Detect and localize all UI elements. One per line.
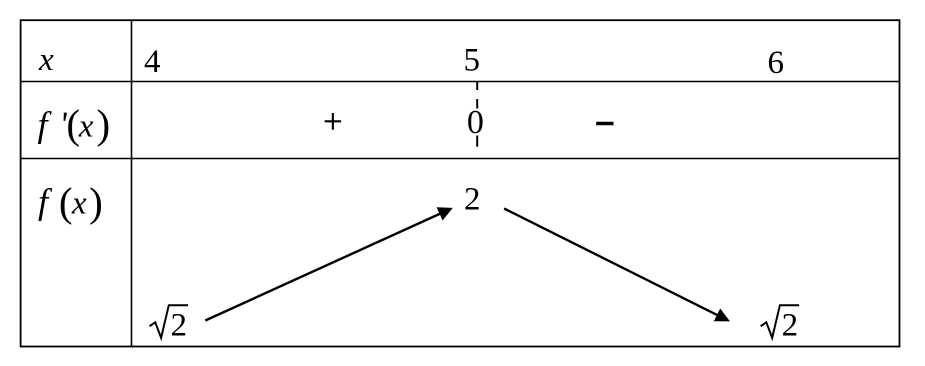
row divider 2	[21, 158, 900, 160]
svg-text:): )	[97, 101, 111, 147]
svg-text:x: x	[38, 42, 54, 78]
svg-text:2: 2	[171, 308, 188, 344]
svg-text:x: x	[78, 109, 94, 145]
left sqrt(2)	[150, 305, 188, 343]
column divider	[131, 20, 133, 346]
svg-text:5: 5	[464, 43, 481, 79]
svg-text:x: x	[71, 186, 87, 222]
svg-text:(: (	[59, 179, 73, 225]
dashed separator at x=5	[476, 82, 478, 91]
svg-text:2: 2	[782, 308, 799, 344]
sign plus	[325, 113, 342, 130]
svg-text:2: 2	[464, 182, 481, 218]
row divider 1	[21, 81, 900, 83]
right sqrt(2)	[761, 305, 799, 343]
sign minus	[596, 122, 613, 125]
svg-text:6: 6	[768, 45, 785, 81]
falling arrow	[504, 209, 730, 322]
svg-text:0: 0	[467, 104, 484, 141]
svg-text:4: 4	[144, 44, 161, 80]
svg-text:): )	[89, 179, 103, 225]
rising arrow	[205, 207, 452, 320]
